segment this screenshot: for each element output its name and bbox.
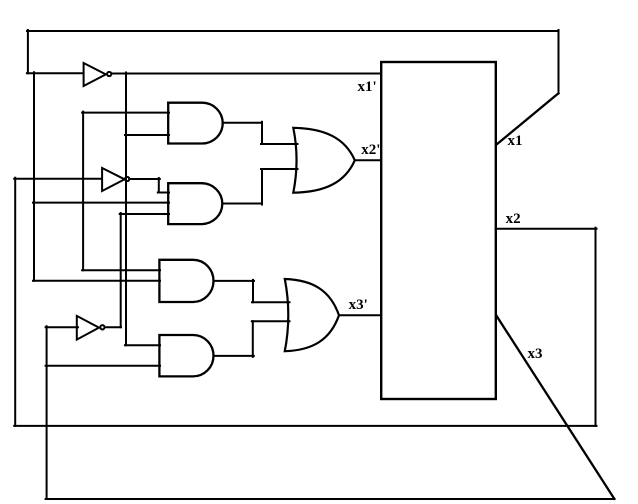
wire: x2 feedback to inverter U2 input: [14, 178, 102, 180]
wire: O2 output x3' to block: [339, 314, 381, 316]
wire: A3 output: [214, 280, 255, 282]
wire: A4 output: [214, 355, 254, 357]
wire: OR O1 upper input: [261, 143, 298, 145]
wire: x3 feedback vertical: [46, 326, 48, 499]
wire: x1 input vertical from U1 input: [33, 72, 35, 280]
block: state register rectangle: [381, 62, 496, 399]
wire: x1' branch to AND A4 upper input: [125, 344, 160, 346]
inverter U2: [102, 168, 125, 191]
svg-text:x1: x1: [508, 133, 523, 149]
wire: A2 output jog up: [261, 169, 263, 205]
OR gate O2: [285, 279, 339, 351]
wire: x3' vertical from inverter U3 output: [120, 213, 122, 327]
wire: branch to AND A2 middle input: [33, 202, 169, 204]
AND gate A3: [159, 260, 213, 302]
AND gate A2: [168, 183, 222, 224]
wire: x2 output from block: [496, 228, 597, 230]
wire: x2 feedback bottom horizontal: [14, 425, 596, 427]
wire: U3 output to x3' riser: [105, 326, 121, 328]
wire: A1 output jog down: [261, 122, 263, 144]
wire: A2 output: [222, 203, 262, 205]
svg-text:x3: x3: [528, 346, 543, 362]
svg-text:x2': x2': [361, 142, 380, 158]
wire: U2 output jog down: [158, 178, 160, 193]
wire: x3 feedback bottom horizontal: [46, 498, 615, 500]
wire: branch to AND A3 upper input: [82, 269, 160, 271]
wire: O1 output x2' to block: [355, 159, 381, 161]
wire: x1 feedback top horizontal: [27, 30, 559, 32]
wire: OR O2 lower input: [252, 320, 290, 322]
AND gate A4: [159, 335, 213, 376]
wire: OR O1 lower input: [261, 168, 298, 170]
wire: AND A4 lower input: [46, 365, 160, 367]
svg-text:x3': x3': [349, 297, 368, 313]
wire: diagonal to x1 pin: [497, 93, 559, 144]
wire: inverter U1 input: [27, 72, 83, 74]
wire: A3 output jog down: [252, 280, 254, 302]
inverter U3: [77, 316, 99, 340]
svg-text:x2: x2: [506, 211, 521, 227]
inverter U2 bubble: [125, 177, 129, 181]
wire: U1 output to block (x1'): [111, 73, 381, 75]
wire: vertical x=83 net: [82, 112, 84, 271]
wire: A4 output jog up: [252, 321, 254, 357]
wire: x2 feedback left vertical: [14, 178, 16, 426]
wire: A1 output: [223, 122, 262, 124]
wire: x3 diagonal output from block: [497, 316, 615, 499]
wire: x1 feedback left drop to inverter input: [27, 30, 29, 73]
inverter U1 bubble: [107, 72, 111, 76]
wire: AND A2 upper input: [158, 192, 169, 194]
wire: x2 feedback right vertical: [595, 228, 597, 426]
inverter U3 bubble: [100, 325, 104, 329]
wire: x1 feedback right drop: [558, 30, 560, 93]
wire: x1' branch to AND A1 lower input: [125, 134, 169, 136]
wire: inverter U3 input: [46, 326, 78, 328]
wire: branch to AND A3 lower input: [33, 280, 160, 282]
AND gate A1: [168, 103, 223, 144]
wire: AND A2 lower input: [120, 213, 169, 215]
wire: AND A1 upper input: [82, 112, 169, 114]
inverter U1: [84, 63, 106, 86]
wire: OR O2 upper input: [252, 301, 290, 303]
wire: U2 output: [129, 178, 160, 180]
wire: x1' vertical distribution: [125, 73, 127, 346]
OR gate O1: [293, 128, 355, 193]
svg-text:x1': x1': [358, 79, 377, 95]
